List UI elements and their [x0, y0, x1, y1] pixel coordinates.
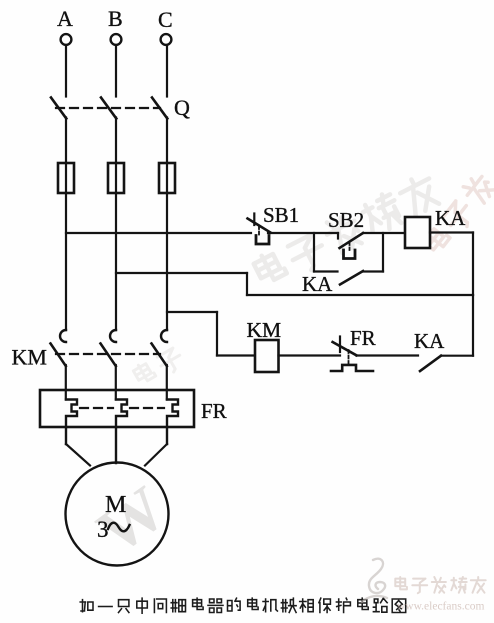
phase terminal labels: [57, 6, 173, 32]
rung2 wire to KM coil: [217, 354, 255, 356]
node vertical right of parallel branch: [382, 233, 384, 272]
svg-text:SB2: SB2: [328, 208, 364, 232]
thermal relay FR box: [40, 390, 194, 427]
KM main contact B arc: [110, 330, 116, 342]
KA rung2 blade: [420, 356, 441, 371]
watermark curl logo bottom-right: [362, 559, 387, 602]
FR actuator hat: [331, 365, 373, 371]
rung2 riser: [216, 312, 218, 356]
KM main contact A arc: [60, 330, 66, 342]
FR heater C: [167, 400, 178, 445]
wire KM coil to FR: [279, 354, 341, 356]
svg-text:A: A: [57, 6, 73, 31]
watermark small grey mid-left: [132, 345, 185, 389]
return riser: [246, 273, 248, 295]
svg-text:M: M: [105, 492, 126, 518]
return wire bottom: [247, 294, 473, 296]
FR linkage dashed: [80, 407, 113, 409]
wire B to FR box: [115, 365, 117, 400]
svg-text:KM: KM: [247, 318, 282, 342]
svg-text:KA: KA: [435, 206, 466, 230]
watermark diagonal pink right edge: [421, 171, 494, 257]
fuse FU C: [159, 163, 175, 193]
SB2 plunger bracket: [344, 250, 356, 259]
switch Q linkage dashed: [56, 107, 160, 109]
wire C to FR box: [166, 365, 168, 400]
fuse FU B: [108, 163, 124, 193]
motor lead C diagonal: [145, 444, 167, 466]
svg-text:FR: FR: [201, 399, 227, 423]
wire A to FR box: [65, 365, 67, 400]
SB1 blade: [248, 219, 271, 233]
SB1 plunger bracket: [256, 236, 269, 245]
return wire to phase B: [116, 272, 247, 274]
right bus lower: [472, 295, 474, 356]
KM main contact B blade: [101, 344, 116, 367]
SB2 fixed tick: [337, 233, 339, 239]
svg-text:SB1: SB1: [263, 203, 299, 227]
wire C mid: [166, 118, 168, 331]
svg-text:www.elecfans.com: www.elecfans.com: [397, 601, 484, 613]
KM main contact C arc: [161, 330, 167, 342]
motor lead A diagonal: [66, 444, 90, 466]
switch Q pole A blade: [51, 98, 66, 119]
rung1 wire A tap to SB1: [66, 232, 251, 234]
wire FR to KA contact: [356, 354, 418, 356]
watermark diagonal grey 电子发烧友: [252, 172, 442, 292]
terminal B: [111, 34, 122, 45]
wire B mid: [115, 118, 117, 331]
SB2 blade: [340, 233, 364, 248]
FR heater A: [66, 400, 77, 445]
wire C top: [166, 45, 168, 97]
KM main contact C blade: [152, 344, 167, 367]
right bus upper: [472, 233, 474, 296]
FR contact blade: [333, 342, 357, 355]
svg-text:Q: Q: [174, 95, 190, 120]
SB1 plunger dashed: [258, 226, 260, 235]
KA aux blade: [340, 271, 363, 285]
wire KA contact to right bus: [441, 355, 473, 357]
wire SB1 to node: [268, 232, 338, 234]
FR heater B: [116, 400, 127, 464]
KA aux branch left wire: [314, 270, 338, 272]
FR contact tick: [339, 337, 341, 353]
FR plunger dashed: [348, 350, 350, 364]
svg-text:FR: FR: [350, 326, 376, 350]
KM main contact A blade: [51, 344, 66, 367]
KA aux right wire: [363, 270, 383, 272]
SB2 plunger dashed: [349, 242, 351, 250]
watermark bottom-right 电子发烧友: [395, 577, 485, 593]
wire node to KA coil: [363, 232, 405, 234]
caption text 加一只中间继电器的电机缺相保护电路图: [80, 598, 406, 613]
svg-text:KA: KA: [414, 329, 445, 353]
switch Q pole C blade: [152, 98, 167, 119]
svg-text:KM: KM: [12, 345, 47, 370]
svg-text:KA: KA: [302, 272, 333, 296]
SB1 fixed tick: [253, 214, 255, 226]
wire A top: [65, 45, 67, 97]
node vertical left of parallel branch: [313, 233, 315, 272]
motor M circle: [66, 463, 169, 566]
rung2 tap from phase C: [167, 311, 217, 313]
terminal A: [61, 34, 72, 45]
KM linkage dashed: [56, 353, 160, 355]
relay coil KA: [405, 217, 430, 248]
svg-text:B: B: [108, 6, 123, 31]
fuse FU A: [58, 163, 74, 193]
contactor coil KM: [255, 340, 279, 372]
wire KA coil to right bus: [430, 231, 473, 233]
terminal C: [161, 34, 172, 45]
switch Q pole B blade: [101, 98, 116, 119]
wire B top: [115, 45, 117, 97]
svg-text:C: C: [158, 7, 173, 32]
wire A mid: [65, 118, 67, 331]
